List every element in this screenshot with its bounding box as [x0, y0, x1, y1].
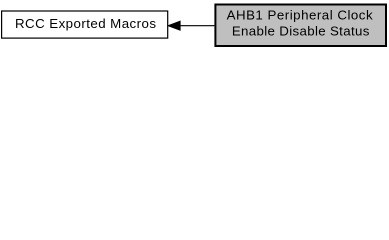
- svg-text:AHB1 Peripheral Clock: AHB1 Peripheral Clock: [227, 7, 373, 22]
- node box: RCC Exported Macros: [2, 11, 168, 38]
- svg-text:Enable Disable Status: Enable Disable Status: [232, 24, 370, 39]
- svg-text:RCC Exported Macros: RCC Exported Macros: [15, 16, 156, 31]
- node box: AHB1 Peripheral Clock Enable Disable Status (current, grey filled, bold border): [215, 5, 386, 47]
- edge wire: from AHB1 node to RCC node: [179, 25, 214, 27]
- edge arrowhead pointing left: [168, 21, 181, 31]
- background: [0, 0, 389, 51]
